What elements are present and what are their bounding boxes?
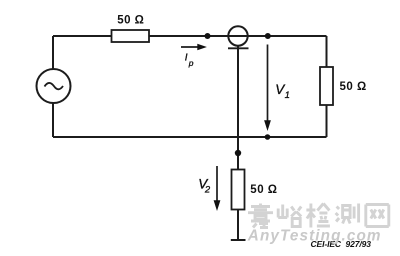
- svg-text:50 Ω: 50 Ω: [250, 184, 277, 196]
- svg-text:50 Ω: 50 Ω: [340, 81, 367, 93]
- svg-text:1: 1: [285, 90, 290, 101]
- svg-text:2: 2: [204, 185, 211, 196]
- svg-text:50 Ω: 50 Ω: [117, 15, 144, 27]
- svg-text:I: I: [185, 52, 188, 63]
- svg-text:p: p: [188, 58, 194, 68]
- svg-text:AnyTesting.com: AnyTesting.com: [247, 227, 382, 244]
